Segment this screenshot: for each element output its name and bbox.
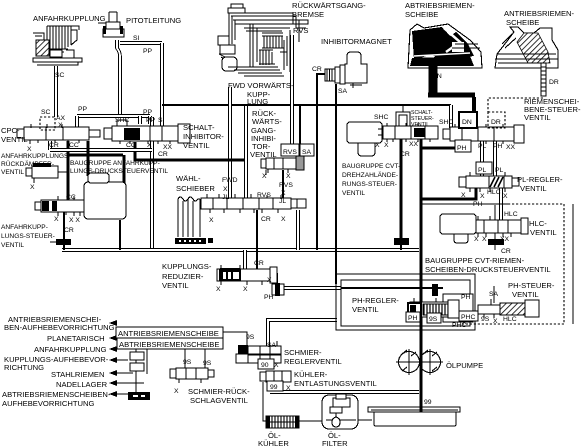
component torque converter [84, 173, 126, 219]
svg-text:SCHALT-: SCHALT- [183, 123, 215, 132]
pipe pump suction from header [270, 390, 419, 394]
box PH inner [341, 280, 470, 326]
pipe PL drop3 [493, 141, 497, 177]
svg-text:X: X [480, 193, 485, 200]
svg-text:CR: CR [254, 260, 264, 267]
svg-text:KÜHLER: KÜHLER [258, 439, 289, 448]
bold SHC valve down and to manual [135, 142, 244, 160]
svg-text:X: X [58, 122, 63, 129]
svg-text:X: X [209, 217, 214, 224]
svg-text:CC: CC [66, 194, 76, 201]
svg-text:XX: XX [409, 141, 419, 148]
wire filter feed drop [339, 393, 341, 398]
svg-text:X: X [27, 146, 32, 153]
svg-text:FWD: FWD [222, 177, 238, 184]
pipe CR header [48, 141, 52, 150]
bold CPC to component [87, 141, 90, 176]
pipe lube 9S header y319 [268, 320, 337, 347]
bold CC branch right [68, 154, 123, 157]
svg-text:AUFHEBEVORRICHTUNG: AUFHEBEVORRICHTUNG [2, 399, 94, 408]
svg-text:PH-REGLER-: PH-REGLER- [352, 296, 399, 305]
solenoid INHIBITORMAGNET [325, 52, 367, 88]
heavy DN line [429, 58, 438, 93]
pulley ABTRIEBSRIEMENSCHEIBE black [408, 24, 482, 68]
svg-text:BREMSE: BREMSE [292, 10, 324, 19]
svg-text:PHC: PHC [452, 322, 466, 329]
valve CPC-VENTIL [17, 117, 100, 144]
svg-text:INHIBITORMAGNET: INHIBITORMAGNET [321, 37, 392, 46]
svg-text:9S: 9S [481, 316, 490, 323]
svg-text:X: X [503, 193, 508, 200]
svg-text:SHC: SHC [115, 117, 129, 124]
svg-text:SCHMIER-RÜCK-: SCHMIER-RÜCK- [188, 387, 250, 396]
svg-text:SCHEIBE: SCHEIBE [405, 10, 438, 19]
svg-text:ANFAHRKUPPLUNG: ANFAHRKUPPLUNG [33, 14, 106, 23]
boxed label PH regler [406, 312, 420, 322]
wire CR mid to header [400, 245, 402, 250]
valve SCHALT-STEUER-VENTIL [378, 123, 438, 142]
svg-text:NADELLAGER: NADELLAGER [56, 380, 108, 389]
box CVT dotted top right [508, 203, 564, 205]
svg-text:SA: SA [302, 149, 312, 156]
svg-text:ENTLASTUNGSVENTIL: ENTLASTUNGSVENTIL [294, 379, 377, 388]
boxed label ABTRIEBSRIEMENSCHEIBE [117, 338, 223, 349]
svg-text:SI: SI [158, 117, 165, 124]
boxed label ANTRIEBSRIEMENSCHEIBE [116, 327, 223, 338]
svg-text:DR: DR [549, 79, 559, 86]
label PL-REGLER-VENTIL [517, 175, 563, 193]
svg-text:RVS: RVS [293, 26, 308, 35]
oil cooler [266, 416, 299, 428]
pipe SC from anfahrkupplung down [54, 66, 58, 117]
bold PH regler branch [420, 187, 476, 199]
svg-text:ANFAHRKUPPLUNGS-: ANFAHRKUPPLUNGS- [1, 153, 71, 160]
svg-text:99: 99 [270, 384, 278, 391]
label PH-STEUER-VENTIL [508, 281, 555, 299]
svg-text:SA: SA [267, 342, 277, 349]
pitot tube component [98, 12, 124, 37]
wire list bus [128, 349, 150, 400]
arrows left list [109, 320, 144, 397]
wire SA drop from header [299, 106, 301, 145]
svg-text:PH: PH [264, 294, 274, 301]
label ANFAHRKUPPLUNGS-RUECKDAEMPFER-VENTIL [1, 153, 71, 176]
svg-text:VENTIL: VENTIL [352, 305, 379, 314]
valve KUEHLER-ENTLASTUNGSVENTIL [260, 371, 291, 382]
label BAUGRUPPE ANFAHRKUPPLUNGS-DRUCKSTEUERVENTIL [70, 160, 168, 175]
svg-text:CPC-: CPC- [1, 126, 20, 135]
label PHC1 [459, 311, 478, 321]
svg-text:PH: PH [408, 315, 418, 322]
wire box1 to schmier [223, 332, 247, 346]
label HLC-VENTIL [529, 219, 557, 237]
svg-text:X: X [267, 277, 272, 284]
svg-text:KÜHLER-: KÜHLER- [294, 370, 328, 379]
svg-text:HLC-: HLC- [529, 219, 547, 228]
box CVT inner corner [494, 205, 496, 239]
pipe PL drop1 [480, 141, 484, 163]
svg-text:PH: PH [461, 294, 471, 301]
svg-text:ANTRIEBSRIEMENSCHEIBE: ANTRIEBSRIEMENSCHEIBE [118, 329, 219, 338]
svg-text:CR: CR [261, 216, 271, 223]
svg-text:SCHMIER-: SCHMIER- [284, 348, 322, 357]
clutch ANFAHRKUPPLUNG [33, 26, 82, 65]
boxed label PL [476, 162, 492, 174]
pulley ANTRIEBSRIEMENSCHEIBE hatched [495, 27, 558, 96]
svg-text:XX: XX [500, 236, 510, 243]
pipe PP drop to SHC a [138, 116, 142, 124]
valve black CR right [488, 239, 504, 245]
label SCHMIER-RUECK-SCHLAGVENTIL [188, 387, 250, 405]
svg-text:PH-STEUER-: PH-STEUER- [508, 281, 555, 290]
boxed label 9S regler [427, 313, 441, 323]
bold CC from CPC down [67, 141, 70, 201]
valve black on x435 [432, 284, 438, 296]
svg-text:PL: PL [478, 143, 487, 150]
label ANFAHRKUPPLUNGS-STEUER-VENTIL [1, 224, 55, 249]
box CVT dotted bottom [460, 323, 564, 325]
svg-text:VENTIL: VENTIL [250, 150, 277, 159]
pipe SI horizontal from pitot [120, 41, 162, 45]
svg-text:HLC: HLC [503, 316, 517, 323]
svg-text:AX: AX [56, 115, 66, 122]
svg-text:X: X [493, 318, 498, 325]
boxed label PH riemen [455, 140, 471, 152]
bold PH main vertical [420, 139, 423, 412]
valve black CR mid [394, 238, 409, 245]
boxed label 90 [258, 359, 274, 369]
svg-text:CR: CR [400, 151, 410, 158]
svg-text:CC: CC [126, 142, 136, 149]
svg-text:VENTIL: VENTIL [1, 169, 24, 176]
wire RVS valve to manual [282, 170, 284, 198]
oil pan [368, 407, 460, 426]
svg-text:X: X [281, 190, 286, 197]
svg-text:PL: PL [478, 167, 487, 174]
svg-text:DN: DN [432, 73, 442, 80]
pipe PL drop2 [480, 174, 484, 177]
svg-text:VENTIL: VENTIL [183, 141, 210, 150]
svg-text:LUNGS-DRUCKSTEUERVENTIL: LUNGS-DRUCKSTEUERVENTIL [70, 168, 168, 175]
label ABTRIEBSRIEMENSCHEIBE [405, 1, 475, 19]
svg-text:X: X [286, 173, 291, 180]
svg-text:SCHIEBER: SCHIEBER [176, 184, 215, 193]
wire solenoid drop [402, 106, 404, 112]
label OEL-KUEHLER [258, 431, 289, 448]
wire CR magnet to bottom [317, 74, 326, 250]
svg-text:X: X [384, 142, 389, 149]
check valve PH reduzier [272, 283, 284, 296]
label PH-REGLER-VENTIL [352, 296, 399, 314]
valve ANFAHRKUPPLUNGS-STEUER-VENTIL [35, 196, 84, 216]
svg-text:X: X [30, 184, 35, 191]
wire 9S box2 drop a [184, 349, 186, 368]
label ANTRIEBSRIEMENSCHEIBE [504, 9, 575, 27]
svg-text:KUPPLUNGS-: KUPPLUNGS- [162, 262, 212, 271]
pipe RVS brake down [290, 35, 294, 145]
valve RUECKWAERTSGANG-INHIBITOR-VENTIL [261, 156, 304, 173]
svg-text:PH: PH [457, 145, 467, 152]
wire component drain [119, 220, 121, 250]
pipe SHC drop right [449, 105, 453, 128]
svg-text:X: X [482, 236, 487, 243]
svg-text:PP: PP [143, 109, 153, 116]
svg-text:FILTER: FILTER [322, 439, 348, 448]
clutch FWD VORWAERTS-KUPPLUNG [218, 4, 299, 76]
valve PH-STEUER-VENTIL [478, 299, 539, 318]
svg-text:X: X [54, 216, 59, 223]
list left labels [2, 315, 115, 408]
svg-text:SC: SC [55, 72, 65, 79]
svg-text:X: X [223, 186, 228, 193]
box CVT dotted right [563, 204, 565, 324]
component HLC rounded [440, 214, 476, 243]
svg-text:SCHEIBE: SCHEIBE [506, 18, 539, 27]
svg-text:PH: PH [493, 143, 503, 150]
svg-text:INHIBITOR-: INHIBITOR- [183, 132, 224, 141]
svg-text:VENTIL: VENTIL [530, 228, 557, 237]
svg-text:LUNG: LUNG [247, 97, 268, 106]
svg-text:BEN-AUFHEBEVORRICHTUNG: BEN-AUFHEBEVORRICHTUNG [4, 323, 115, 332]
component drehzahl box [347, 122, 382, 156]
svg-text:ABTRIEBSRIEMEN-: ABTRIEBSRIEMEN- [405, 1, 475, 10]
label BAUGRUPPE CVT-DREHZAHLAENDERUNGS-STEUERVENTIL [342, 163, 400, 197]
wire filter to pan [358, 419, 372, 421]
svg-text:PL: PL [495, 167, 504, 174]
svg-text:99: 99 [424, 399, 432, 406]
dashed DR line [488, 66, 543, 112]
svg-text:PP: PP [143, 48, 153, 55]
label OEL-FILTER [322, 431, 348, 448]
solenoid SHC schalt-steuer [396, 112, 410, 131]
boxed label DN [459, 112, 477, 128]
component WAEHL-SCHIEBER [175, 197, 213, 244]
svg-text:DR: DR [491, 119, 501, 126]
svg-text:LUNGS-STEUER-: LUNGS-STEUER- [1, 233, 55, 240]
pipe PH from reduzier check valve [270, 275, 276, 284]
svg-text:VENTIL: VENTIL [342, 190, 365, 197]
svg-text:X: X [174, 388, 179, 395]
svg-text:X: X [262, 173, 267, 180]
svg-text:RÜCKDÄMPFER-: RÜCKDÄMPFER- [1, 160, 54, 168]
svg-text:SCHLAGVENTIL: SCHLAGVENTIL [190, 396, 248, 405]
svg-text:SA: SA [338, 88, 348, 95]
pipe PP drop to SHC b [148, 116, 152, 124]
svg-text:XX: XX [163, 144, 173, 151]
valve SCHALT-INHIBITOR-VENTIL (SHC) [104, 120, 190, 144]
svg-text:9S: 9S [183, 359, 192, 366]
svg-text:BAUGRUPPE CVT-: BAUGRUPPE CVT- [342, 163, 400, 170]
pipe PP header y116 [77, 114, 150, 118]
pump OELPUMPE [396, 349, 443, 375]
svg-text:PP: PP [78, 106, 88, 113]
pipe HLC drop [499, 187, 503, 220]
label SCHMIER-REGLERVENTIL [284, 348, 342, 366]
valve manual waehlschieber [201, 194, 306, 213]
svg-text:VENTIL: VENTIL [512, 290, 539, 299]
svg-text:JL: JL [222, 194, 229, 201]
svg-text:PL-REGLER-: PL-REGLER- [517, 175, 563, 184]
wire cooler drain [263, 382, 266, 421]
svg-text:SC: SC [41, 109, 51, 116]
svg-text:CR: CR [312, 66, 322, 73]
bold PH riemen to main [420, 142, 470, 148]
svg-text:STAHLRIEMEN: STAHLRIEMEN [51, 370, 104, 379]
svg-text:SHC: SHC [374, 114, 388, 121]
svg-text:ÖLPUMPE: ÖLPUMPE [446, 361, 483, 370]
label RUECKWAERTSGANG-BREMSE [292, 1, 366, 19]
oil filter [322, 394, 358, 429]
boxed label 99 [267, 381, 283, 391]
svg-text:REGLERVENTIL: REGLERVENTIL [284, 357, 342, 366]
svg-text:BAUGRUPPE ANFAHRKUPP-: BAUGRUPPE ANFAHRKUPP- [70, 160, 160, 167]
svg-text:X X: X X [69, 217, 80, 224]
svg-text:VENTIL: VENTIL [1, 135, 28, 144]
pipe PP drop to CPC [75, 116, 79, 128]
svg-text:HLC: HLC [487, 189, 501, 196]
svg-text:PP: PP [146, 117, 156, 124]
boxed label DR [488, 112, 505, 128]
svg-text:RUNGS-STEUER-: RUNGS-STEUER- [342, 181, 397, 188]
pipe PH main line [280, 286, 341, 290]
valve PH-REGLER-VENTIL [408, 298, 459, 318]
svg-text:ANFAHRKUPPLUNG: ANFAHRKUPPLUNG [34, 345, 107, 354]
box right outer edge [572, 204, 574, 324]
wire SA magnet to bottom [335, 84, 337, 284]
valve SCHMIER-RUECKSCHLAGVENTIL [170, 368, 214, 383]
boxed label RVS [281, 144, 299, 156]
wire PH line inside box [341, 287, 443, 289]
svg-text:PHC: PHC [461, 314, 475, 321]
wire SA schmier drop [276, 341, 278, 347]
label SCHALT-STEUER-VENTIL small [411, 110, 434, 128]
pipe tank header y250 [62, 248, 419, 252]
svg-text:X: X [461, 192, 466, 199]
box CVT baugruppe top [422, 203, 508, 205]
pipe box A right edge [150, 117, 154, 250]
svg-text:REDUZIER-: REDUZIER- [162, 272, 204, 281]
svg-text:HLC: HLC [504, 211, 518, 218]
svg-text:X: X [281, 216, 286, 223]
svg-text:SI: SI [133, 35, 140, 42]
wire cooler to filter [299, 420, 322, 422]
wire main header y105 [162, 104, 451, 106]
svg-text:RVS: RVS [257, 192, 271, 199]
svg-text:XX: XX [506, 144, 516, 151]
connector steuer to component [77, 202, 85, 210]
valve PL-REGLER-VENTIL [459, 172, 519, 192]
pipe pitot PP tube down [117, 40, 120, 116]
wire CR right to header [494, 245, 496, 250]
label FWD VORWAERTS-KUPPLUNG [228, 81, 294, 106]
valve HLC-VENTIL [472, 216, 528, 237]
svg-text:VENTIL: VENTIL [520, 184, 547, 193]
svg-text:FWD VORWÄRTS-: FWD VORWÄRTS- [228, 81, 294, 90]
valve RIEMENSCHEIBENE-STEUER-VENTIL [443, 124, 524, 144]
label WAEHL-SCHIEBER [176, 174, 215, 193]
svg-text:ANTRIEBSRIEMEN-: ANTRIEBSRIEMEN- [504, 9, 575, 18]
wire steuer drain to tank header [63, 245, 65, 250]
wire steuer CR drain [63, 212, 65, 239]
wire RVS valve port stub [265, 170, 267, 175]
label KUEHLER-ENTLASTUNGSVENTIL [294, 370, 377, 388]
wire CR manual to reduzier [256, 210, 258, 269]
svg-text:DREHZAHLÄNDE-: DREHZAHLÄNDE- [342, 171, 398, 179]
svg-text:ABTRIEBSRIEMENSCHEIBE: ABTRIEBSRIEMENSCHEIBE [119, 340, 219, 349]
svg-text:X: X [274, 362, 279, 369]
label SCHALT-INHIBITOR-VENTIL [183, 123, 224, 150]
svg-text:RVS: RVS [279, 182, 293, 189]
svg-text:RVS: RVS [283, 149, 297, 156]
svg-text:ANFAHRKUPP-: ANFAHRKUPP- [1, 224, 48, 231]
svg-text:PITOTLEITUNG: PITOTLEITUNG [126, 16, 181, 25]
boxed label SA [300, 144, 314, 156]
svg-text:CR: CR [501, 248, 511, 255]
svg-text:X: X [216, 286, 221, 293]
svg-text:SCHEIBEN-DRUCKSTEUERVENTIL: SCHEIBEN-DRUCKSTEUERVENTIL [425, 265, 551, 274]
label RUECKWAERTSGANG-INHIBITOR-VENTIL [250, 109, 282, 159]
wire SA phsteuer drop [493, 286, 495, 303]
svg-text:X: X [243, 286, 248, 293]
pipe SI drop [160, 43, 164, 126]
valve SCHMIER-REGLERVENTIL [236, 345, 281, 363]
svg-text:WÄRTS-: WÄRTS- [252, 117, 282, 126]
wire CR drop to reduzier a [243, 250, 247, 269]
svg-text:CR: CR [49, 142, 59, 149]
svg-text:RÜCKWÄRTSGANG-: RÜCKWÄRTSGANG- [292, 1, 366, 10]
svg-text:CR: CR [158, 151, 168, 158]
svg-text:JL: JL [279, 198, 286, 205]
svg-text:9S: 9S [246, 334, 255, 341]
svg-text:VENTIL: VENTIL [524, 113, 551, 122]
svg-text:9S: 9S [429, 316, 438, 323]
valve ANFAHRKUPPLUNGS-RUECKDAEMPFER-VENTIL [26, 163, 68, 183]
svg-text:X: X [147, 142, 152, 149]
svg-text:X: X [375, 142, 380, 149]
brake RVS structure [293, 20, 308, 28]
svg-text:VENTIL: VENTIL [162, 281, 189, 290]
svg-text:SHC: SHC [439, 119, 453, 126]
drain valve black anfahr [50, 239, 71, 245]
svg-text:PH: PH [473, 201, 483, 208]
pipe FWD RVS feed [244, 106, 248, 198]
pipe manual valve right drain [296, 210, 300, 250]
svg-text:DN: DN [462, 119, 472, 126]
wire 9S box2 drop b [204, 349, 206, 368]
svg-text:CC: CC [69, 142, 79, 149]
svg-text:90: 90 [261, 362, 269, 369]
bold CR mid drop [400, 139, 403, 238]
label CPC-VENTIL [1, 126, 28, 144]
box PH outer [336, 274, 475, 330]
svg-text:WÄHL-: WÄHL- [176, 174, 201, 183]
svg-text:ABTRIEBSRIEMENSCHEIBEN-: ABTRIEBSRIEMENSCHEIBEN- [2, 390, 111, 399]
svg-text:PLANETARISCH: PLANETARISCH [47, 334, 105, 343]
label RIEMENSCHEIBENE-STEUER-VENTIL [524, 97, 581, 122]
svg-text:VENTIL: VENTIL [1, 242, 24, 249]
svg-text:CR: CR [64, 227, 74, 234]
svg-text:VENTIL: VENTIL [411, 122, 429, 128]
svg-text:SA: SA [489, 291, 499, 298]
svg-text:X: X [286, 385, 291, 392]
svg-text:9S: 9S [203, 360, 212, 367]
label BAUGRUPPE CVT-RIEMENSCHEIBEN-DRUCKSTEUERVENTIL [425, 256, 551, 274]
valve KUPPLUNGS-REDUZIER-VENTIL [217, 265, 277, 285]
svg-text:BAUGRUPPE CVT-RIEMEN-: BAUGRUPPE CVT-RIEMEN- [425, 256, 525, 265]
pipe FWD clutch to manual valve [228, 87, 232, 198]
svg-text:RICHTUNG: RICHTUNG [4, 363, 44, 372]
svg-text:X: X [474, 236, 479, 243]
